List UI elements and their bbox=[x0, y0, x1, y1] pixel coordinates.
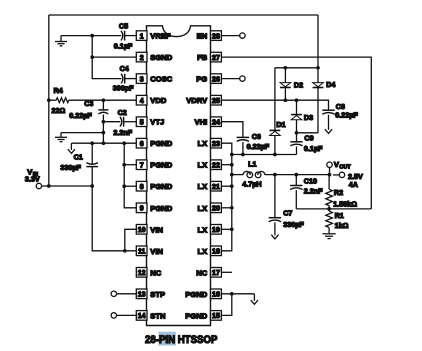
pin 25 VDRV bbox=[186, 95, 221, 105]
svg-text:19: 19 bbox=[212, 227, 220, 234]
wire pin15 PGND joining pin16 bbox=[221, 294, 231, 316]
svg-text:VIN: VIN bbox=[150, 225, 163, 234]
resistor R2 1.58kohm bbox=[326, 175, 357, 209]
terminal PG pin26 bbox=[221, 76, 245, 81]
pin 16 PGND bbox=[185, 289, 221, 299]
pin 13 STP bbox=[136, 289, 165, 299]
svg-text:28: 28 bbox=[212, 33, 220, 40]
node LX bus pin21 junction bbox=[230, 184, 234, 188]
svg-text:D4: D4 bbox=[326, 80, 335, 89]
pin 28 EN bbox=[197, 31, 222, 41]
svg-text:FB: FB bbox=[197, 53, 208, 62]
svg-text:26: 26 bbox=[212, 76, 220, 83]
svg-text:D3: D3 bbox=[304, 113, 313, 122]
capacitor C7 330uF polarized bbox=[269, 175, 305, 236]
svg-text:PGND: PGND bbox=[150, 182, 172, 191]
node VOUT junction bbox=[328, 173, 332, 177]
ground arrow A4 for PGND 15/16 bbox=[251, 294, 258, 305]
capacitor C3 0.22uF bbox=[69, 99, 108, 122]
svg-text:16: 16 bbox=[212, 292, 220, 299]
node VDRV / D3 anode junction bbox=[295, 98, 299, 102]
svg-text:LX: LX bbox=[197, 182, 207, 191]
svg-text:OUT: OUT bbox=[339, 164, 351, 170]
node ground tap junction bbox=[102, 131, 106, 135]
svg-text:C1: C1 bbox=[74, 152, 83, 161]
svg-text:R4: R4 bbox=[54, 86, 63, 95]
node C3 / C2 / VTJ junction bbox=[102, 120, 106, 124]
svg-text:LX: LX bbox=[197, 247, 207, 256]
svg-text:22: 22 bbox=[212, 163, 220, 170]
pin 19 LX bbox=[197, 225, 221, 235]
node L1 / C10 junction bbox=[294, 173, 298, 177]
wire pin1 VREF to ground bbox=[61, 35, 121, 37]
svg-text:11: 11 bbox=[138, 249, 146, 256]
diode D4 bbox=[313, 68, 336, 133]
svg-text:7: 7 bbox=[140, 163, 144, 170]
wire pin19 LX stub bbox=[221, 228, 231, 230]
pin 24 VHI bbox=[195, 117, 222, 127]
svg-text:PGND: PGND bbox=[150, 204, 172, 213]
svg-text:0.22µF: 0.22µF bbox=[247, 142, 270, 151]
wire pin22 LX stub bbox=[221, 164, 231, 166]
svg-text:6: 6 bbox=[140, 141, 144, 148]
wire VHI pin24 bbox=[221, 122, 243, 138]
svg-text:2.2nF: 2.2nF bbox=[304, 186, 323, 195]
wire C2 node down to ground tap and PGND bbox=[102, 122, 104, 144]
pin 17 NC bbox=[196, 268, 221, 278]
svg-text:25: 25 bbox=[212, 98, 220, 105]
svg-text:L1: L1 bbox=[248, 159, 256, 168]
svg-text:C9: C9 bbox=[304, 133, 313, 142]
pin 23 LX bbox=[197, 138, 221, 148]
terminal VIN 3.3V bbox=[25, 168, 42, 189]
capacitor C10 2.2nF bbox=[290, 175, 323, 209]
ground G3 below R1 bbox=[323, 233, 336, 235]
svg-text:VREF: VREF bbox=[150, 32, 171, 41]
svg-text:SGND: SGND bbox=[150, 53, 172, 62]
node LX bus / L1 wire junction bbox=[230, 173, 234, 177]
ground G1 top-left bbox=[55, 36, 67, 46]
svg-text:15: 15 bbox=[212, 313, 220, 320]
node anode rail / D2 junction bbox=[284, 66, 288, 70]
svg-text:1kΩ: 1kΩ bbox=[335, 221, 349, 230]
ground G2 with tap wire bbox=[55, 133, 103, 142]
svg-text:4: 4 bbox=[140, 98, 144, 105]
node PGND bus pin8 junction bbox=[122, 184, 126, 188]
wire PGND bus pins 7-9 bbox=[124, 143, 136, 208]
wire FB pin27 to divider bbox=[221, 57, 371, 209]
pin 4 VDD bbox=[136, 95, 167, 105]
svg-text:R1: R1 bbox=[335, 211, 344, 220]
terminal STP pin13 bbox=[111, 291, 136, 296]
node PGND bus top junction bbox=[122, 141, 126, 145]
svg-text:PGND: PGND bbox=[150, 161, 172, 170]
svg-text:C7: C7 bbox=[283, 208, 292, 217]
node VDD / C3 junction bbox=[102, 98, 106, 102]
svg-text:C6: C6 bbox=[252, 132, 261, 141]
wire LX node line bbox=[232, 154, 297, 156]
svg-text:28-PIN HTSSOP: 28-PIN HTSSOP bbox=[145, 334, 217, 346]
ground arrow A1 near C1 bbox=[68, 143, 75, 153]
svg-text:27: 27 bbox=[212, 55, 220, 62]
svg-text:22Ω: 22Ω bbox=[52, 106, 66, 115]
pin 9 PGND bbox=[136, 203, 172, 213]
svg-text:23: 23 bbox=[212, 141, 220, 148]
svg-text:20: 20 bbox=[212, 206, 220, 213]
svg-text:2.2nF: 2.2nF bbox=[113, 128, 132, 137]
pin 11 VIN bbox=[136, 246, 163, 256]
wire pin21 LX stub bbox=[221, 185, 231, 187]
svg-text:VHI: VHI bbox=[195, 118, 208, 127]
pin 27 FB bbox=[197, 52, 221, 62]
wire pin7 PGND stub bbox=[124, 164, 136, 166]
svg-text:3.3V: 3.3V bbox=[25, 175, 40, 184]
svg-text:0.22µF: 0.22µF bbox=[335, 110, 358, 119]
pin 2 SGND bbox=[136, 52, 172, 62]
node C3 bus / PGND wire junction bbox=[102, 141, 106, 145]
wire pin20 LX stub bbox=[221, 207, 231, 209]
capacitor C9 0.1uF bbox=[290, 133, 323, 155]
svg-text:STP: STP bbox=[150, 290, 165, 299]
wire VIN terminal to C1 bottom bbox=[42, 185, 93, 187]
svg-text:C10: C10 bbox=[304, 176, 317, 185]
svg-text:3: 3 bbox=[140, 76, 144, 83]
node LX line / D1 junction bbox=[273, 153, 277, 157]
pin 5 VTJ bbox=[136, 117, 164, 127]
pin 1 VREF bbox=[136, 31, 171, 41]
node SGND junction pin2 bbox=[90, 55, 94, 59]
wire pin2 SGND bbox=[92, 56, 136, 58]
node SGND bus / VREF wire junction bbox=[90, 34, 94, 38]
ground arrow A3 below C8 bbox=[325, 129, 332, 133]
svg-text:4.7µH: 4.7µH bbox=[242, 180, 261, 189]
svg-text:12: 12 bbox=[138, 270, 146, 277]
capacitor C8 0.22uF bbox=[322, 102, 358, 130]
diode D3 bbox=[291, 100, 313, 133]
diode D2 bbox=[280, 68, 303, 100]
wire FB divider node bbox=[296, 208, 371, 210]
svg-text:14: 14 bbox=[138, 313, 146, 320]
wire pin10 VIN branch bbox=[125, 229, 137, 251]
node C9 top junction bbox=[295, 131, 299, 135]
wire VIN node to pin11 bbox=[92, 186, 136, 251]
svg-text:D2: D2 bbox=[294, 80, 303, 89]
svg-text:LX: LX bbox=[197, 161, 207, 170]
pin 18 LX bbox=[197, 246, 221, 256]
svg-text:0.1µF: 0.1µF bbox=[114, 42, 133, 51]
node LX bus pin22 junction bbox=[230, 163, 234, 167]
pin 10 VIN bbox=[136, 225, 163, 235]
svg-text:R2: R2 bbox=[334, 188, 343, 197]
wire VIN 3.3V left rail bbox=[48, 15, 50, 186]
svg-text:C4: C4 bbox=[120, 64, 129, 73]
node LX bus pin20 junction bbox=[230, 206, 234, 210]
svg-text:LX: LX bbox=[197, 225, 207, 234]
svg-text:VIN: VIN bbox=[150, 247, 163, 256]
node PGND bus pin7 junction bbox=[122, 163, 126, 167]
svg-text:NC: NC bbox=[150, 268, 161, 277]
svg-text:D1: D1 bbox=[276, 120, 285, 129]
diode D1 bbox=[270, 68, 286, 155]
svg-text:10: 10 bbox=[138, 227, 146, 234]
op-amp U1 IC body 28-PIN HTSSOP with index notch bbox=[147, 26, 211, 326]
resistor R4 22ohm bbox=[52, 86, 137, 115]
svg-text:13: 13 bbox=[138, 292, 146, 299]
svg-text:2: 2 bbox=[140, 55, 144, 62]
svg-text:C2: C2 bbox=[118, 108, 127, 117]
pin 14 STN bbox=[136, 311, 165, 321]
node LX bus pin19 junction bbox=[230, 227, 234, 231]
svg-text:LX: LX bbox=[197, 139, 207, 148]
ground arrow A2 below C7 bbox=[271, 235, 278, 239]
svg-text:0.1µF: 0.1µF bbox=[304, 144, 323, 153]
svg-text:COSC: COSC bbox=[150, 75, 172, 84]
svg-text:EN: EN bbox=[197, 32, 208, 41]
node LX bus junction to LX line bbox=[230, 153, 234, 157]
svg-text:PGND: PGND bbox=[150, 139, 172, 148]
node VDRV / D2 cathode junction bbox=[284, 98, 288, 102]
terminal VOUT bbox=[327, 160, 363, 189]
svg-text:C5: C5 bbox=[119, 21, 128, 30]
wire D3 cathode to D4 node bbox=[297, 132, 319, 134]
svg-text:PGND: PGND bbox=[185, 290, 207, 299]
capacitor C2 2.2nF bbox=[103, 108, 136, 137]
svg-text:5: 5 bbox=[140, 120, 144, 127]
svg-text:PGND: PGND bbox=[185, 311, 207, 320]
terminal EN pin28 bbox=[221, 33, 245, 38]
svg-text:330µF: 330µF bbox=[60, 163, 81, 172]
svg-text:1.58kΩ: 1.58kΩ bbox=[333, 200, 357, 209]
wire VDD pin4 bbox=[49, 99, 56, 101]
node L1 / C7 junction bbox=[273, 173, 277, 177]
svg-text:17: 17 bbox=[212, 270, 220, 277]
pin 26 PG bbox=[196, 74, 221, 84]
node LX line / C6 junction bbox=[241, 153, 245, 157]
pin 15 PGND bbox=[185, 311, 221, 321]
capacitor C5 0.1uF bbox=[114, 21, 137, 50]
inductor L1 4.7uH bbox=[232, 159, 330, 188]
svg-text:18: 18 bbox=[212, 249, 220, 256]
pin 8 PGND bbox=[136, 181, 172, 191]
node VIN rail bottom junction bbox=[47, 184, 51, 188]
wire D1/D2/D4 anode rail bbox=[275, 67, 318, 69]
pin 6 PGND bbox=[136, 138, 172, 148]
wire pin16 PGND bbox=[221, 293, 254, 295]
svg-text:VDRV: VDRV bbox=[186, 96, 208, 105]
svg-text:VTJ: VTJ bbox=[150, 118, 164, 127]
svg-text:8: 8 bbox=[140, 184, 144, 191]
capacitor C6 0.22uF bootstrap bbox=[237, 132, 270, 155]
svg-text:0.22µF: 0.22µF bbox=[69, 111, 92, 120]
wire VIN bus drop to D2/D4 anode rail bbox=[317, 15, 319, 68]
label 28-PIN HTSSOP with highlight on PIN bbox=[145, 332, 217, 346]
node R2/R1 FB junction bbox=[327, 207, 331, 211]
svg-text:330µF: 330µF bbox=[283, 220, 304, 229]
svg-text:390pF: 390pF bbox=[113, 84, 134, 93]
pin 20 LX bbox=[197, 203, 221, 213]
wire VIN top bus bbox=[49, 14, 318, 16]
node anode rail / D4 feed junction bbox=[316, 66, 320, 70]
wire LX bus pins 18-23 bbox=[221, 143, 231, 251]
pin 12 NC bbox=[136, 268, 161, 278]
svg-text:LX: LX bbox=[197, 204, 207, 213]
wire NC pin17 stub bbox=[221, 271, 232, 273]
resistor R1 1kohm bbox=[326, 209, 349, 234]
node C1 bottom / VIN pins junction bbox=[90, 184, 94, 188]
svg-text:C3: C3 bbox=[84, 99, 93, 108]
svg-text:NC: NC bbox=[196, 268, 207, 277]
node VIN rail / R4 junction bbox=[47, 98, 51, 102]
wire VDRV pin25 bbox=[221, 100, 328, 110]
node pin15/pin16 junction bbox=[230, 292, 234, 296]
svg-text:V: V bbox=[334, 160, 339, 169]
terminal STN pin14 bbox=[111, 313, 136, 318]
node C1 top junction bbox=[90, 141, 94, 145]
pin 21 LX bbox=[197, 181, 221, 191]
svg-text:21: 21 bbox=[212, 184, 220, 191]
svg-text:VDD: VDD bbox=[150, 96, 167, 105]
svg-text:PG: PG bbox=[196, 75, 207, 84]
svg-text:STN: STN bbox=[150, 311, 165, 320]
capacitor C1 330uF polarized bbox=[60, 143, 98, 186]
capacitor C4 390pF bbox=[113, 64, 137, 92]
svg-text:24: 24 bbox=[212, 120, 220, 127]
pin 22 LX bbox=[197, 160, 221, 170]
svg-text:9: 9 bbox=[140, 206, 144, 213]
svg-text:4A: 4A bbox=[349, 180, 358, 189]
node pin10/pin11 wire junction bbox=[123, 249, 127, 253]
wire SGND bus vertical bbox=[92, 36, 121, 79]
wire pin8 PGND stub bbox=[124, 185, 136, 187]
svg-text:1: 1 bbox=[140, 33, 144, 40]
wire pin6 PGND bbox=[71, 142, 136, 144]
pin 3 COSC bbox=[136, 74, 172, 84]
pin 7 PGND bbox=[136, 160, 172, 170]
